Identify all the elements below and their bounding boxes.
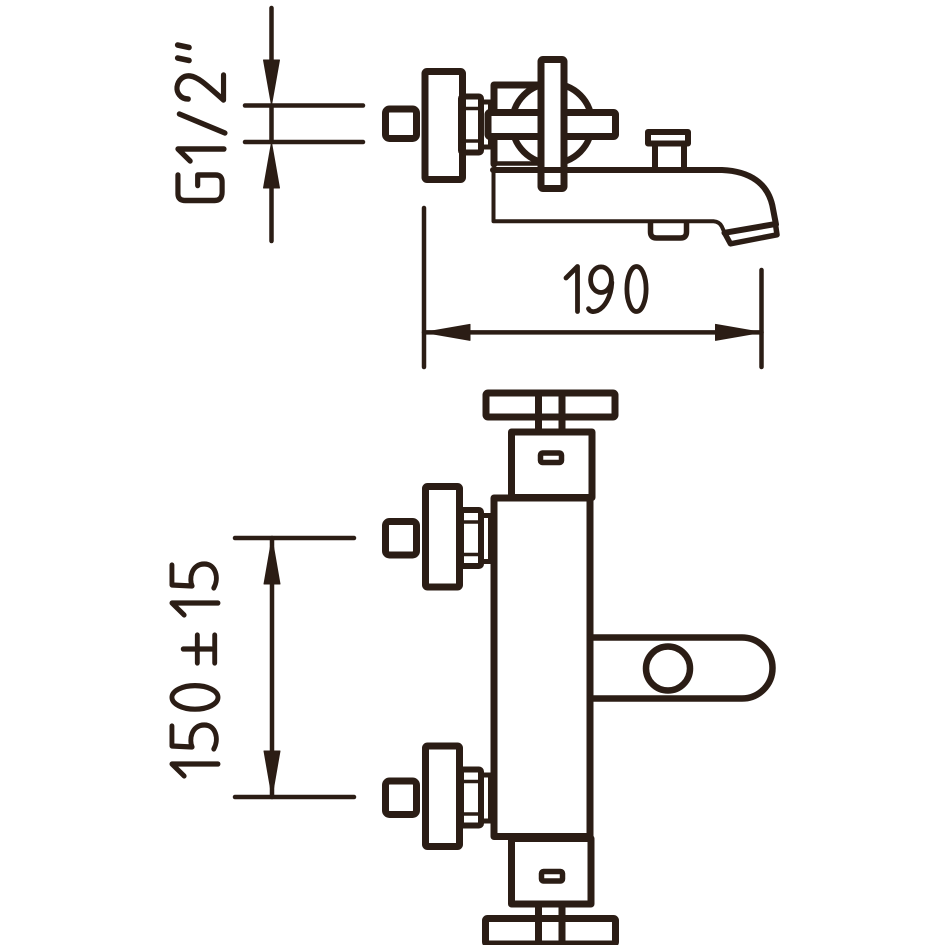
G1/2 dimension line upper segment <box>269 8 274 60</box>
diverter knob circle (plan) <box>646 647 690 691</box>
bottom handle stem (front view) <box>539 904 563 944</box>
valve body square (top view) <box>494 85 541 164</box>
bottom cross handle bar (front view) <box>486 919 616 945</box>
190 right arrowhead <box>716 324 762 340</box>
G1/2 upper arrowhead <box>264 60 280 105</box>
cross handle horizontal bar (top view) <box>488 113 616 137</box>
G1/2 extension line lower <box>245 140 363 145</box>
aerator ring line (top view) <box>725 224 775 233</box>
wall flange (top view) <box>425 72 463 180</box>
G1/2 dimension line middle segment <box>269 106 274 143</box>
upper inlet square nut (front view) <box>386 522 417 556</box>
lower washer (front view) <box>481 775 491 821</box>
lower wall flange (front view) <box>426 746 460 847</box>
spout top edge and outer curve (top view) <box>493 170 776 225</box>
top bonnet (front view) <box>512 432 593 498</box>
lower inlet square nut (front view) <box>386 781 417 815</box>
label 190 <box>566 267 646 312</box>
upper wall flange (front view) <box>426 487 460 588</box>
190 extension line left <box>422 208 427 367</box>
aerator tip box (top view) <box>725 224 778 243</box>
150 top arrowhead <box>264 538 280 584</box>
bottom handle stem over bar <box>539 919 563 945</box>
label 150 ± 15 (rotated) <box>172 564 218 776</box>
label G1/2" (rotated) <box>177 45 225 201</box>
under-spout boss (top view) <box>651 223 687 238</box>
valve rosette circle (top view) <box>512 84 592 164</box>
bottom bonnet slot <box>542 872 563 882</box>
bottom bonnet (front view) <box>512 839 592 905</box>
150 dimension line <box>270 538 275 797</box>
150 extension line bottom <box>235 795 354 800</box>
hex nut (top view) <box>461 97 481 153</box>
spout stadium outline (plan of spout) <box>590 638 772 699</box>
cross handle vertical bar (top view) <box>541 60 564 189</box>
diverter knob cap (top view) <box>648 132 688 144</box>
G1/2 extension line upper <box>245 103 363 108</box>
upper hex nut (front view) <box>461 510 481 566</box>
spout left and bottom edge (top view) <box>494 170 725 233</box>
inlet square nut (top view) <box>386 109 417 139</box>
top cross handle bar (front view) <box>486 393 615 417</box>
top handle stem (front view) <box>539 393 563 432</box>
G1/2 dimension line lower segment <box>269 188 274 241</box>
G1/2 lower arrowhead <box>264 143 280 189</box>
upper washer (front view) <box>481 516 491 562</box>
190 left arrowhead <box>424 324 470 340</box>
washer (top view) <box>481 102 491 147</box>
diverter knob stem (top view) <box>655 144 684 168</box>
lower hex nut (front view) <box>461 770 481 826</box>
190 dimension line <box>424 330 762 335</box>
190 extension line right <box>759 270 764 367</box>
150 bottom arrowhead <box>264 751 280 797</box>
mixer body (front view) <box>494 498 590 837</box>
top bonnet slot <box>541 453 562 463</box>
150 extension line top <box>235 536 354 541</box>
